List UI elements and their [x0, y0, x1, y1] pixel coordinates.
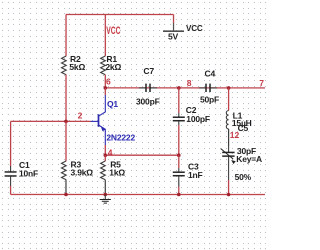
svg-text:3.9kΩ: 3.9kΩ	[70, 168, 93, 178]
svg-text:50%: 50%	[235, 172, 252, 182]
svg-text:1kΩ: 1kΩ	[109, 168, 125, 178]
wire L1 to trimmer	[228, 129, 230, 146]
svg-text:6: 6	[106, 76, 111, 86]
svg-text:2: 2	[78, 111, 83, 121]
resistor R3	[61, 160, 93, 180]
transistor Q1 2N2222	[90, 88, 135, 145]
svg-text:Key=A: Key=A	[236, 154, 262, 164]
resistor R1	[101, 54, 122, 75]
capacitor C7	[136, 66, 160, 107]
svg-text:5V: 5V	[168, 32, 179, 42]
wire C3 to rail	[178, 187, 180, 195]
node junction L1 top	[227, 86, 231, 90]
variable capacitor 30pF Key=A	[221, 146, 262, 182]
wire node6 to node7 horizontal	[105, 87, 265, 89]
wire node2 to R3	[65, 121, 67, 161]
resistor R5	[101, 160, 126, 180]
wire junction to C3	[178, 155, 180, 168]
node 6	[104, 86, 108, 90]
svg-text:C4: C4	[205, 68, 216, 78]
svg-text:VCC: VCC	[186, 23, 203, 33]
wire node2 horizontal	[11, 120, 91, 122]
wire R1 branch upper	[104, 14, 106, 56]
ground	[100, 194, 111, 203]
wire R2 to node 2	[65, 75, 67, 121]
wire emitter to node 4	[104, 145, 106, 155]
resistor R2	[62, 54, 86, 75]
wire C2 to junction	[178, 125, 180, 155]
wire VCC stub	[173, 15, 175, 23]
svg-text:50pF: 50pF	[200, 95, 219, 105]
svg-text:300pF: 300pF	[136, 96, 160, 106]
svg-text:C7: C7	[143, 66, 154, 76]
inductor L1	[226, 110, 251, 129]
junction dot	[177, 153, 181, 157]
wire top VCC rail	[66, 13, 174, 15]
svg-text:8: 8	[187, 78, 192, 88]
node 8	[177, 86, 181, 90]
junction trimmer bottom	[227, 193, 231, 197]
svg-text:7: 7	[259, 78, 264, 88]
wire trimmer to rail	[228, 180, 230, 195]
wire R1 to node 6	[104, 75, 106, 88]
node 4	[105, 154, 179, 156]
node 2	[64, 120, 68, 124]
wire R5 to rail	[104, 180, 106, 195]
junction ground	[103, 193, 107, 197]
wire C1 to rail	[10, 186, 12, 195]
power symbol VCC 5V	[163, 23, 203, 42]
capacitor C2	[173, 105, 210, 125]
svg-text:5kΩ: 5kΩ	[69, 62, 85, 72]
wire L1 branch top	[228, 88, 230, 111]
wire bottom rail	[11, 193, 265, 195]
junction C3 bottom	[177, 193, 181, 197]
wire left branch down	[10, 121, 12, 166]
svg-text:100pF: 100pF	[186, 114, 210, 124]
svg-text:VCC: VCC	[106, 25, 120, 37]
wire R3 to rail	[65, 180, 67, 195]
svg-text:10nF: 10nF	[19, 168, 38, 178]
svg-text:12: 12	[230, 130, 240, 140]
wire node4 to R5	[104, 155, 106, 161]
svg-text:1nF: 1nF	[188, 170, 203, 180]
capacitor C1	[5, 160, 38, 186]
wire R2 branch upper	[65, 14, 67, 56]
capacitor C3	[173, 161, 203, 180]
svg-text:2kΩ: 2kΩ	[105, 62, 121, 72]
wire node8 down through C2 to node4 wire	[178, 88, 180, 113]
svg-text:Q1: Q1	[107, 99, 118, 109]
svg-text:2N2222: 2N2222	[106, 132, 135, 142]
capacitor C4	[199, 68, 219, 104]
junction R3 bottom	[64, 193, 68, 197]
svg-text:4: 4	[108, 148, 113, 158]
